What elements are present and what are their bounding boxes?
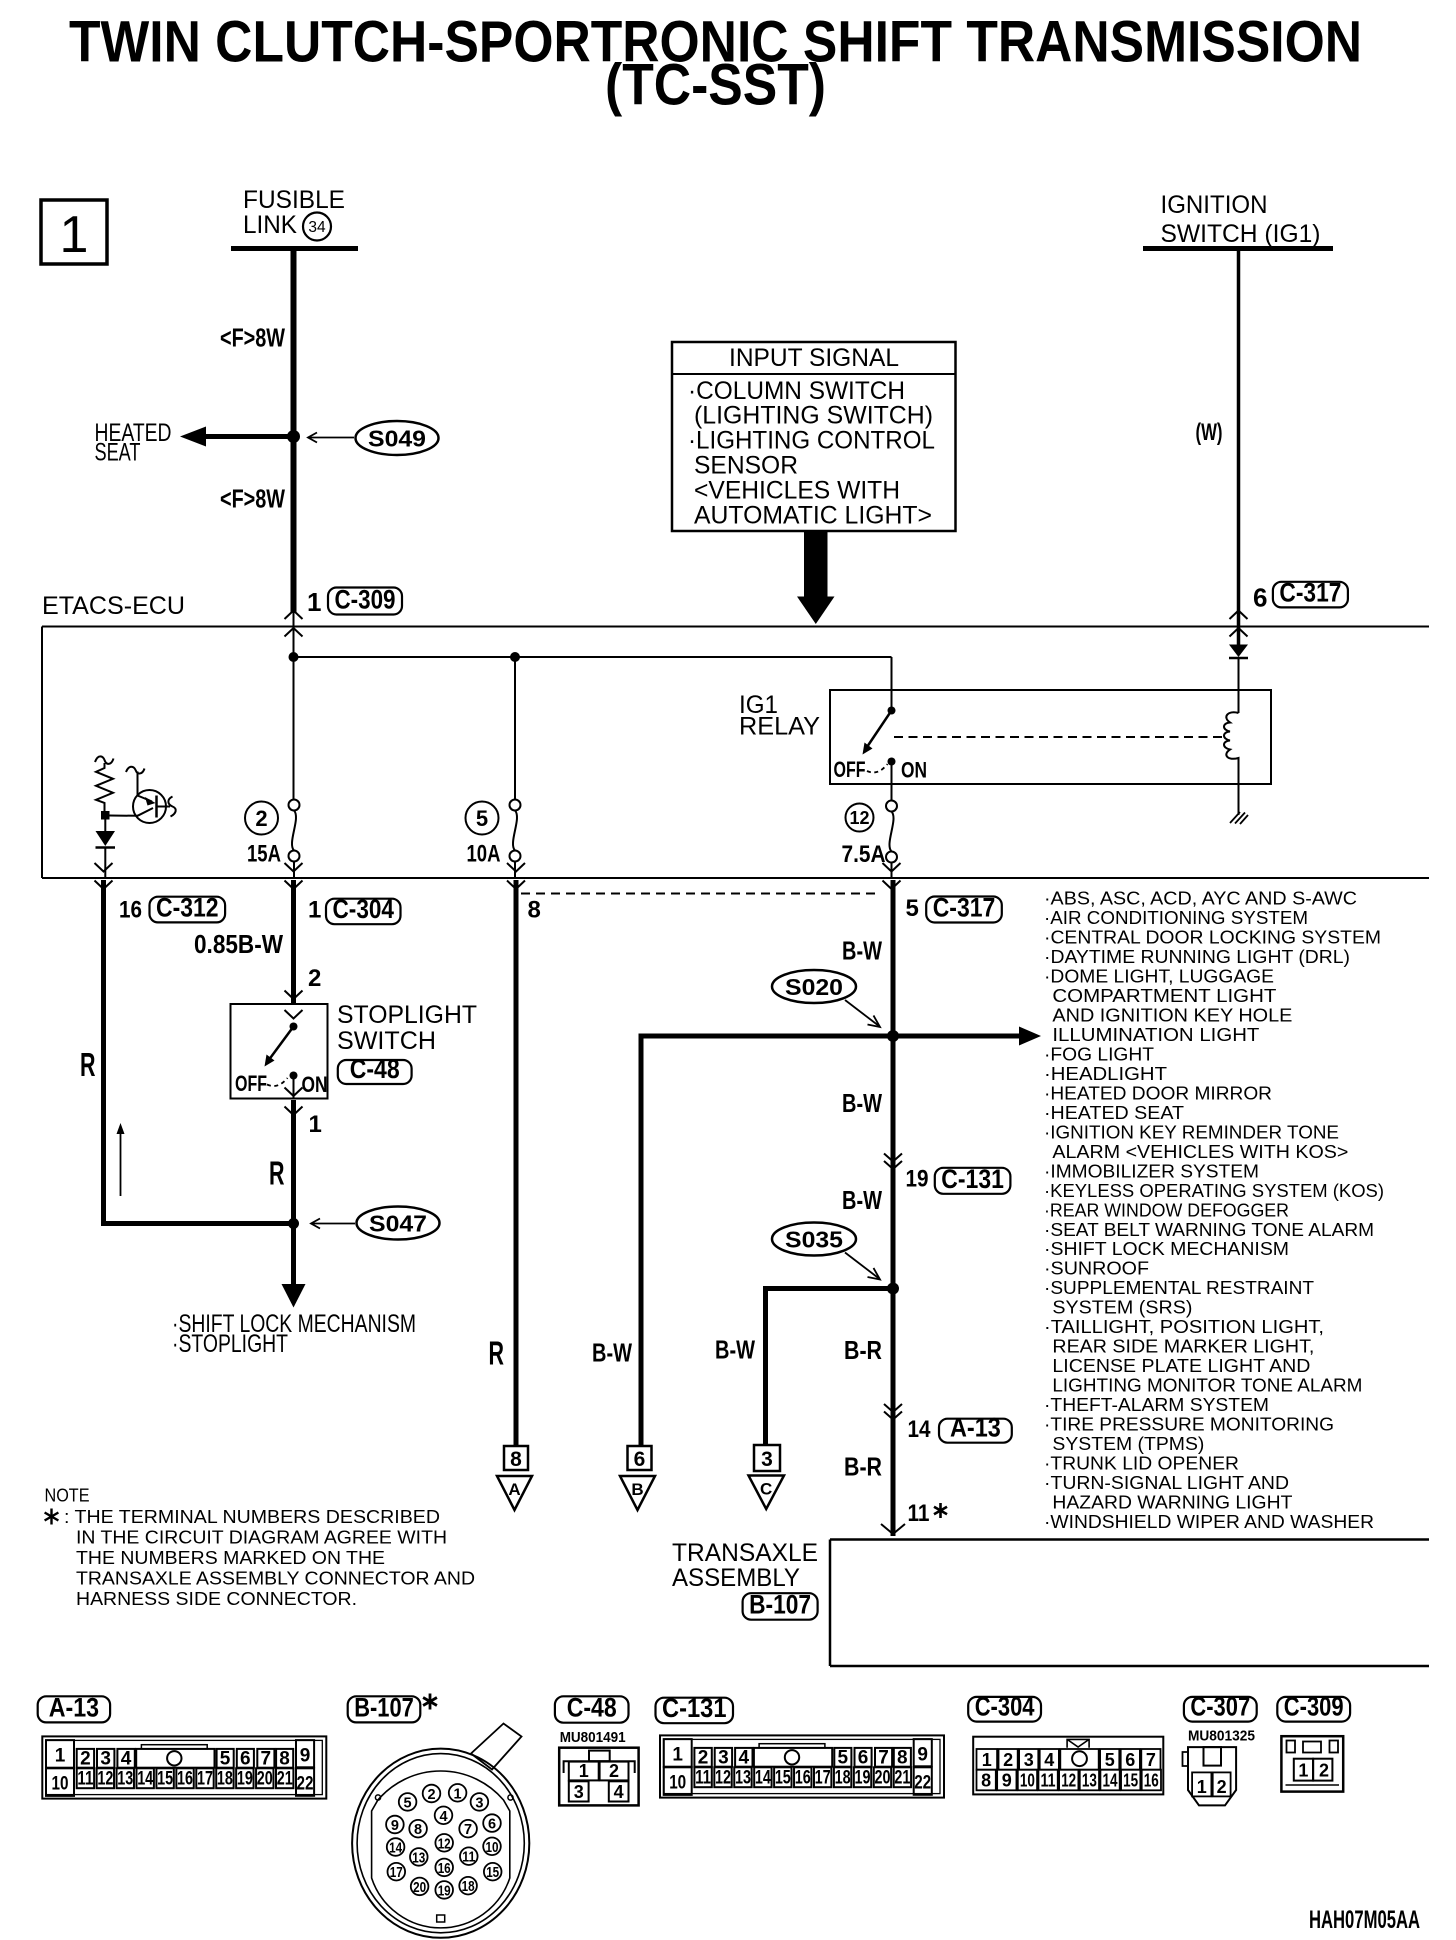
- svg-text:<F>8W: <F>8W: [220, 323, 285, 353]
- internal transistor: [110, 767, 176, 823]
- svg-text:12: 12: [438, 1836, 451, 1852]
- connector B-107 pinout title: [348, 1692, 437, 1722]
- svg-text:IN THE CIRCUIT DIAGRAM AGREE W: IN THE CIRCUIT DIAGRAM AGREE WITH: [76, 1527, 447, 1548]
- note text block: [45, 1485, 476, 1610]
- svg-text:6: 6: [1253, 583, 1267, 613]
- svg-text:·AIR CONDITIONING SYSTEM: ·AIR CONDITIONING SYSTEM: [1044, 907, 1308, 928]
- svg-text:C-48: C-48: [567, 1693, 617, 1723]
- svg-text:14: 14: [908, 1416, 932, 1443]
- wire down to fuse 2: [293, 627, 295, 800]
- svg-text:12: 12: [97, 1768, 113, 1789]
- svg-text:NOTE: NOTE: [45, 1485, 90, 1506]
- title text: [69, 10, 1362, 118]
- svg-text:C-312: C-312: [156, 892, 219, 922]
- svg-text:1: 1: [982, 1750, 992, 1770]
- bus junction node at 294: [289, 652, 299, 662]
- flow direction arrow on R wire: [117, 1123, 125, 1196]
- IG1 relay box: [830, 690, 1271, 784]
- relay actuation dashed link: [894, 736, 1225, 738]
- svg-text:B-W: B-W: [842, 1088, 882, 1118]
- svg-text:ON: ON: [302, 1072, 328, 1097]
- svg-text:·REAR WINDOW DEFOGGER: ·REAR WINDOW DEFOGGER: [1044, 1199, 1289, 1220]
- connector C-304 pinout title: [968, 1697, 1041, 1722]
- transaxle pin box 6: [628, 1446, 652, 1471]
- svg-text:LINK: LINK: [243, 211, 297, 239]
- svg-text:S049: S049: [368, 426, 426, 452]
- svg-text:4: 4: [121, 1748, 132, 1769]
- ignition switch (IG1) label: [1161, 191, 1321, 248]
- svg-text:7.5A: 7.5A: [842, 841, 886, 868]
- transaxle pin box 3: [754, 1445, 780, 1471]
- connector C-317 ref mid: [926, 897, 1002, 923]
- svg-text:2: 2: [308, 965, 321, 992]
- connector C-131 pinout drawing: [660, 1735, 944, 1797]
- svg-text:6: 6: [858, 1747, 869, 1768]
- connector C-309 ref: [328, 588, 402, 615]
- svg-text:5: 5: [1105, 1750, 1115, 1770]
- internal node square junction: [101, 811, 110, 820]
- svg-text:19: 19: [855, 1767, 871, 1788]
- svg-text:TRANSAXLE ASSEMBLY CONNECTOR A: TRANSAXLE ASSEMBLY CONNECTOR AND: [76, 1568, 475, 1589]
- relay coil: [1224, 659, 1239, 816]
- node splice S035: [887, 1283, 899, 1295]
- svg-text:19: 19: [237, 1768, 253, 1789]
- wire R switch to S047: [291, 1100, 296, 1285]
- splice callout S020: [772, 970, 880, 1027]
- svg-text:C-309: C-309: [1284, 1692, 1344, 1722]
- svg-text:2: 2: [609, 1761, 619, 1781]
- svg-text:·CENTRAL DOOR LOCKING SYSTEM: ·CENTRAL DOOR LOCKING SYSTEM: [1044, 927, 1381, 948]
- wire R to S047 (left branch): [101, 880, 291, 1224]
- svg-text:12: 12: [849, 808, 869, 828]
- svg-text:·HEATED DOOR MIRROR: ·HEATED DOOR MIRROR: [1044, 1082, 1272, 1103]
- svg-text:9: 9: [1002, 1771, 1012, 1791]
- wire 0.85B-W to stoplight switch: [291, 880, 296, 1004]
- connector exit chevrons x=103.5: [95, 863, 113, 889]
- input signal box: [672, 342, 956, 531]
- svg-text:INPUT SIGNAL: INPUT SIGNAL: [729, 344, 899, 372]
- svg-text:LIGHTING MONITOR TONE ALARM: LIGHTING MONITOR TONE ALARM: [1052, 1375, 1362, 1396]
- svg-text:20: 20: [413, 1880, 426, 1896]
- svg-text:·ABS, ASC, ACD, AYC AND S-AWC: ·ABS, ASC, ACD, AYC AND S-AWC: [1044, 888, 1357, 909]
- svg-text:12: 12: [1061, 1771, 1076, 1791]
- connector C-307 pinout drawing: [1183, 1747, 1237, 1805]
- ETACS-ECU box: [42, 627, 1429, 879]
- node splice S047: [288, 1218, 299, 1229]
- off-page triangle C: [749, 1476, 785, 1510]
- svg-text:8: 8: [981, 1771, 991, 1791]
- bus junction node at 515: [510, 652, 520, 662]
- connector C-48 pinout drawing: [559, 1748, 638, 1806]
- svg-text:10: 10: [669, 1772, 686, 1793]
- svg-text:8: 8: [414, 1822, 422, 1838]
- svg-text:8: 8: [897, 1747, 908, 1768]
- svg-text:A-13: A-13: [49, 1692, 99, 1722]
- svg-text:ALARM <VEHICLES WITH KOS>: ALARM <VEHICLES WITH KOS>: [1052, 1141, 1348, 1162]
- wire R to transaxle pin 8: [514, 880, 519, 1446]
- svg-text:LICENSE PLATE LIGHT AND: LICENSE PLATE LIGHT AND: [1052, 1355, 1310, 1376]
- ground symbol: [1230, 812, 1248, 824]
- svg-text:·WINDSHIELD WIPER AND WASHER: ·WINDSHIELD WIPER AND WASHER: [1044, 1511, 1374, 1532]
- svg-text:SENSOR: SENSOR: [694, 452, 798, 480]
- svg-text:S020: S020: [785, 974, 843, 1000]
- svg-text:OFF: OFF: [235, 1071, 267, 1096]
- svg-text:COMPARTMENT LIGHT: COMPARTMENT LIGHT: [1052, 985, 1276, 1006]
- svg-text:19: 19: [906, 1166, 929, 1193]
- svg-text:8: 8: [510, 1448, 522, 1471]
- svg-text:S035: S035: [785, 1227, 843, 1253]
- svg-text:20: 20: [257, 1768, 273, 1789]
- svg-text:B-107: B-107: [749, 1590, 811, 1620]
- svg-text:3: 3: [718, 1747, 729, 1768]
- svg-text:MU801491: MU801491: [560, 1729, 626, 1746]
- svg-text:15A: 15A: [247, 841, 281, 868]
- svg-text:9: 9: [391, 1818, 399, 1834]
- svg-text:9: 9: [917, 1744, 928, 1765]
- svg-text:·DAYTIME RUNNING LIGHT (DRL): ·DAYTIME RUNNING LIGHT (DRL): [1044, 946, 1350, 967]
- svg-text:16: 16: [795, 1767, 811, 1788]
- svg-text:B: B: [631, 1480, 643, 1499]
- svg-text:2: 2: [1319, 1761, 1329, 1781]
- svg-text:B-R: B-R: [844, 1335, 882, 1365]
- svg-text:·COLUMN SWITCH: ·COLUMN SWITCH: [688, 377, 905, 405]
- svg-text:TRANSAXLE: TRANSAXLE: [672, 1539, 818, 1567]
- svg-text:5: 5: [404, 1795, 412, 1811]
- svg-text:14: 14: [755, 1767, 771, 1788]
- svg-text:13: 13: [412, 1850, 425, 1866]
- svg-text:·HEADLIGHT: ·HEADLIGHT: [1044, 1063, 1167, 1084]
- connector A-13 pinout drawing: [42, 1736, 326, 1798]
- pass-through double chevron at C-131: [884, 1154, 902, 1170]
- stoplight switch C-48 box: [231, 1004, 328, 1099]
- svg-text:OFF: OFF: [834, 757, 866, 782]
- svg-text:21: 21: [277, 1768, 293, 1789]
- connector C-131 ref mid: [935, 1168, 1011, 1194]
- svg-text:·HEATED SEAT: ·HEATED SEAT: [1044, 1102, 1184, 1123]
- relay switch: [834, 690, 928, 800]
- fuse 5 10A: [466, 800, 521, 879]
- svg-text:C-304: C-304: [333, 894, 395, 924]
- svg-text:FUSIBLE: FUSIBLE: [243, 186, 345, 214]
- svg-text:16: 16: [438, 1861, 451, 1877]
- svg-text:11: 11: [1041, 1771, 1056, 1791]
- connector C-312 ref: [150, 897, 226, 923]
- internal diode: [96, 820, 116, 879]
- svg-text:17: 17: [815, 1767, 831, 1788]
- ignition switch supply bar: [1143, 246, 1333, 251]
- svg-text:13: 13: [1082, 1771, 1097, 1791]
- svg-text:STOPLIGHT: STOPLIGHT: [337, 1001, 477, 1029]
- svg-text:11: 11: [77, 1768, 93, 1789]
- page number box 1: [41, 200, 107, 264]
- svg-text:THE NUMBERS MARKED ON THE: THE NUMBERS MARKED ON THE: [76, 1547, 385, 1568]
- svg-text:4: 4: [439, 1809, 447, 1825]
- heated seat label: [95, 419, 172, 467]
- svg-text:5: 5: [838, 1747, 849, 1768]
- shift lock / stoplight destination label: [172, 1310, 416, 1358]
- svg-text:22: 22: [914, 1772, 931, 1793]
- svg-text:10A: 10A: [467, 841, 501, 868]
- internal supply bus wire: [294, 656, 892, 658]
- svg-text:C: C: [760, 1480, 772, 1499]
- svg-text:8: 8: [528, 897, 541, 924]
- svg-text:·LIGHTING CONTROL: ·LIGHTING CONTROL: [688, 427, 935, 455]
- svg-text:8: 8: [279, 1748, 290, 1769]
- svg-text:ASSEMBLY: ASSEMBLY: [672, 1564, 800, 1592]
- svg-text:15: 15: [157, 1768, 173, 1789]
- svg-text:C-309: C-309: [335, 585, 396, 615]
- svg-text:20: 20: [874, 1767, 890, 1788]
- svg-text:19: 19: [438, 1883, 451, 1899]
- svg-text:13: 13: [117, 1768, 133, 1789]
- svg-text:AUTOMATIC LIGHT>: AUTOMATIC LIGHT>: [694, 501, 932, 529]
- transaxle entry chevron: [881, 1524, 905, 1534]
- wire S020 distribution with arrow: [639, 1027, 1042, 1046]
- stoplight switch contacts: [235, 1023, 328, 1099]
- transaxle assembly box: [830, 1540, 1429, 1667]
- transaxle pin box 8: [504, 1446, 528, 1471]
- svg-text:REAR SIDE MARKER LIGHT,: REAR SIDE MARKER LIGHT,: [1052, 1336, 1314, 1357]
- svg-text:14: 14: [389, 1841, 402, 1857]
- svg-text:7: 7: [1146, 1750, 1156, 1770]
- svg-text:5: 5: [906, 895, 919, 922]
- wire down to fuse 5: [514, 657, 516, 800]
- svg-text:11: 11: [695, 1767, 711, 1788]
- internal resistor pull-up: [95, 756, 114, 811]
- svg-text:7: 7: [261, 1748, 272, 1769]
- svg-text:B-W: B-W: [842, 936, 882, 966]
- svg-text:B-W: B-W: [842, 1185, 882, 1215]
- svg-text:16: 16: [1144, 1771, 1159, 1791]
- fuse 12 7.5A: [842, 801, 898, 879]
- svg-text:B-W: B-W: [592, 1338, 632, 1368]
- svg-text:1: 1: [454, 1786, 462, 1802]
- svg-text:·KEYLESS OPERATING SYSTEM (KOS: ·KEYLESS OPERATING SYSTEM (KOS): [1044, 1180, 1384, 1201]
- fuse 2 15A: [245, 800, 300, 879]
- wire B-W main branch: [891, 880, 896, 1536]
- svg-text:·SUPPLEMENTAL RESTRAINT: ·SUPPLEMENTAL RESTRAINT: [1044, 1277, 1314, 1298]
- svg-text:(TC-SST): (TC-SST): [605, 53, 826, 118]
- svg-text:10: 10: [486, 1840, 499, 1856]
- svg-text:AND IGNITION KEY HOLE: AND IGNITION KEY HOLE: [1052, 1004, 1292, 1025]
- svg-text:SWITCH: SWITCH: [337, 1027, 436, 1055]
- connector exit chevrons x=516: [507, 863, 525, 889]
- splice callout S035: [772, 1223, 880, 1280]
- svg-text:6: 6: [1125, 1750, 1135, 1770]
- svg-text:·THEFT-ALARM SYSTEM: ·THEFT-ALARM SYSTEM: [1044, 1394, 1269, 1415]
- svg-text:C-317: C-317: [933, 893, 996, 923]
- svg-text:0.85B-W: 0.85B-W: [194, 929, 283, 959]
- svg-text:6: 6: [240, 1748, 251, 1769]
- svg-text:ILLUMINATION LIGHT: ILLUMINATION LIGHT: [1052, 1024, 1259, 1045]
- svg-text:3: 3: [100, 1748, 111, 1769]
- svg-text:(W): (W): [1196, 419, 1223, 446]
- wire bus to IG1 relay: [891, 657, 893, 690]
- svg-text:: THE TERMINAL NUMBERS DESCRIB: : THE TERMINAL NUMBERS DESCRIBED: [64, 1506, 440, 1527]
- svg-text:RELAY: RELAY: [739, 713, 820, 741]
- svg-text:·DOME LIGHT, LUGGAGE: ·DOME LIGHT, LUGGAGE: [1044, 966, 1274, 987]
- svg-text:MU801325: MU801325: [1188, 1728, 1255, 1745]
- off-page triangle A: [497, 1476, 532, 1510]
- connector B-107 round pinout drawing: [352, 1724, 529, 1938]
- stoplight switch label: [337, 1001, 477, 1055]
- terminal 11* label: [908, 1500, 948, 1527]
- off-page triangle B: [620, 1476, 655, 1510]
- svg-text:14: 14: [137, 1768, 153, 1789]
- node splice S020: [887, 1030, 899, 1042]
- node splice S049: [287, 430, 300, 443]
- svg-text:2: 2: [80, 1748, 91, 1769]
- svg-text:16: 16: [119, 897, 142, 924]
- svg-text:HAZARD WARNING LIGHT: HAZARD WARNING LIGHT: [1052, 1491, 1292, 1512]
- svg-text:13: 13: [735, 1767, 751, 1788]
- svg-text:3: 3: [475, 1795, 483, 1811]
- svg-text:5: 5: [476, 806, 488, 831]
- svg-text:SEAT: SEAT: [95, 439, 141, 467]
- svg-text:B-R: B-R: [844, 1452, 882, 1482]
- svg-text:·TIRE PRESSURE MONITORING: ·TIRE PRESSURE MONITORING: [1044, 1414, 1334, 1435]
- svg-text:IGNITION: IGNITION: [1161, 191, 1268, 219]
- svg-text:3: 3: [1024, 1750, 1034, 1770]
- diode at C-317 input: [1229, 645, 1248, 659]
- svg-text:15: 15: [486, 1865, 499, 1881]
- connector C-304 pinout drawing: [973, 1737, 1163, 1795]
- fusible link supply bar: [231, 246, 358, 251]
- svg-text:6: 6: [488, 1817, 496, 1833]
- wire fusible link to ETACS C-309 (8W): [291, 249, 297, 627]
- svg-text:12: 12: [715, 1767, 731, 1788]
- splice callout S049: [308, 421, 439, 455]
- svg-text:10: 10: [52, 1773, 69, 1794]
- svg-text:·SHIFT LOCK MECHANISM: ·SHIFT LOCK MECHANISM: [1044, 1238, 1289, 1259]
- svg-text:SYSTEM (TPMS): SYSTEM (TPMS): [1052, 1433, 1204, 1454]
- svg-text:C-48: C-48: [350, 1054, 400, 1084]
- svg-text:<VEHICLES WITH: <VEHICLES WITH: [694, 476, 900, 504]
- svg-text:11: 11: [908, 1500, 930, 1527]
- svg-text:1: 1: [672, 1744, 683, 1765]
- stoplight switch entry chevrons: [285, 991, 303, 1019]
- svg-text:1: 1: [1197, 1777, 1207, 1797]
- svg-text:A-13: A-13: [950, 1413, 1001, 1443]
- svg-text:3: 3: [574, 1782, 584, 1802]
- IG1 relay label: [739, 691, 820, 741]
- svg-text:SYSTEM (SRS): SYSTEM (SRS): [1052, 1297, 1192, 1318]
- fusible link 34 label: [243, 186, 345, 241]
- wire B-W to transaxle pin 6: [639, 1034, 644, 1447]
- svg-text:C-131: C-131: [662, 1693, 727, 1723]
- stoplight switch exit chevrons: [285, 1088, 303, 1116]
- svg-text:15: 15: [1123, 1771, 1138, 1791]
- svg-text:11: 11: [462, 1850, 475, 1866]
- svg-text:R: R: [269, 1155, 285, 1192]
- connector C-309 pinout drawing: [1281, 1736, 1343, 1791]
- connector A-13 pinout title: [38, 1696, 110, 1722]
- connector C-131 pinout title: [656, 1698, 734, 1724]
- svg-text:2: 2: [698, 1747, 709, 1768]
- svg-text:4: 4: [1044, 1750, 1054, 1770]
- svg-text:17: 17: [197, 1768, 213, 1789]
- svg-text:18: 18: [217, 1768, 233, 1789]
- svg-text:5: 5: [220, 1748, 231, 1769]
- svg-text:6: 6: [634, 1448, 646, 1471]
- svg-text:·TRUNK LID OPENER: ·TRUNK LID OPENER: [1044, 1453, 1239, 1474]
- svg-text:22: 22: [297, 1773, 314, 1794]
- splice callout S047: [311, 1207, 440, 1240]
- svg-text:21: 21: [894, 1767, 910, 1788]
- svg-text:15: 15: [775, 1767, 791, 1788]
- svg-text:·TURN-SIGNAL LIGHT AND: ·TURN-SIGNAL LIGHT AND: [1044, 1472, 1289, 1493]
- svg-text:1: 1: [307, 587, 321, 617]
- svg-text:·IMMOBILIZER SYSTEM: ·IMMOBILIZER SYSTEM: [1044, 1160, 1259, 1181]
- svg-text:C-131: C-131: [941, 1164, 1004, 1194]
- svg-text:ON: ON: [901, 758, 927, 783]
- svg-text:B-W: B-W: [715, 1335, 755, 1365]
- pass-through double chevron at A-13: [884, 1404, 902, 1420]
- svg-text:·SEAT BELT WARNING TONE ALARM: ·SEAT BELT WARNING TONE ALARM: [1044, 1219, 1374, 1240]
- svg-text:18: 18: [835, 1767, 851, 1788]
- svg-text:1: 1: [309, 1111, 322, 1138]
- system list fed by IG1: [1044, 888, 1384, 1532]
- dashed connector tie line: [521, 893, 877, 895]
- svg-text:ETACS-ECU: ETACS-ECU: [42, 592, 185, 620]
- svg-text:17: 17: [390, 1865, 403, 1881]
- svg-text:2: 2: [1217, 1777, 1227, 1797]
- svg-text:4: 4: [739, 1747, 750, 1768]
- svg-text:<F>8W: <F>8W: [220, 484, 285, 514]
- svg-text:·STOPLIGHT: ·STOPLIGHT: [172, 1330, 288, 1358]
- transaxle assembly label: [672, 1539, 818, 1592]
- svg-text:1: 1: [55, 1745, 66, 1766]
- connector C-304 ref mid: [326, 899, 401, 925]
- svg-text:1: 1: [1298, 1761, 1308, 1781]
- svg-text:R: R: [489, 1335, 505, 1372]
- svg-text:1: 1: [60, 206, 89, 264]
- svg-text:10: 10: [1020, 1771, 1035, 1791]
- connector C-307 pinout title: [1184, 1692, 1257, 1745]
- connector B-107 ref mid: [743, 1593, 818, 1620]
- wire B-W to transaxle pin 3: [763, 1286, 896, 1445]
- heated seat branch arrow: [180, 427, 294, 447]
- svg-text:34: 34: [308, 219, 326, 236]
- connector C-48 pinout title: [555, 1693, 629, 1746]
- svg-text:·SUNROOF: ·SUNROOF: [1044, 1258, 1149, 1279]
- svg-text:C-307: C-307: [1190, 1692, 1250, 1722]
- svg-text:HAH07M05AA: HAH07M05AA: [1309, 1906, 1420, 1934]
- svg-text:16: 16: [177, 1768, 193, 1789]
- svg-text:·IGNITION KEY REMINDER TONE: ·IGNITION KEY REMINDER TONE: [1044, 1121, 1339, 1142]
- connector C-309 pinout title: [1277, 1697, 1350, 1722]
- svg-text:B-107: B-107: [354, 1692, 414, 1722]
- svg-text:14: 14: [1103, 1771, 1118, 1791]
- svg-text:2: 2: [1003, 1750, 1013, 1770]
- svg-text:1: 1: [579, 1761, 589, 1781]
- svg-text:·TAILLIGHT, POSITION LIGHT,: ·TAILLIGHT, POSITION LIGHT,: [1044, 1316, 1324, 1337]
- input signal thick arrow into ETACS: [797, 531, 835, 624]
- connector A-13 ref mid: [939, 1419, 1012, 1443]
- svg-text:7: 7: [464, 1822, 472, 1838]
- svg-text:R: R: [80, 1046, 96, 1083]
- svg-text:HARNESS SIDE CONNECTOR.: HARNESS SIDE CONNECTOR.: [76, 1588, 357, 1609]
- connector pass-through chevrons at C-317: [1230, 611, 1248, 637]
- connector C-317 ref top: [1273, 582, 1348, 608]
- svg-text:7: 7: [878, 1747, 889, 1768]
- connector exit chevrons x=293.5: [285, 863, 303, 889]
- svg-text:SWITCH (IG1): SWITCH (IG1): [1161, 220, 1321, 248]
- svg-text:·FOG LIGHT: ·FOG LIGHT: [1044, 1043, 1154, 1064]
- arrow to shift lock mechanism: [282, 1284, 306, 1308]
- svg-text:9: 9: [300, 1745, 311, 1766]
- connector exit chevrons x=891.5: [883, 863, 901, 889]
